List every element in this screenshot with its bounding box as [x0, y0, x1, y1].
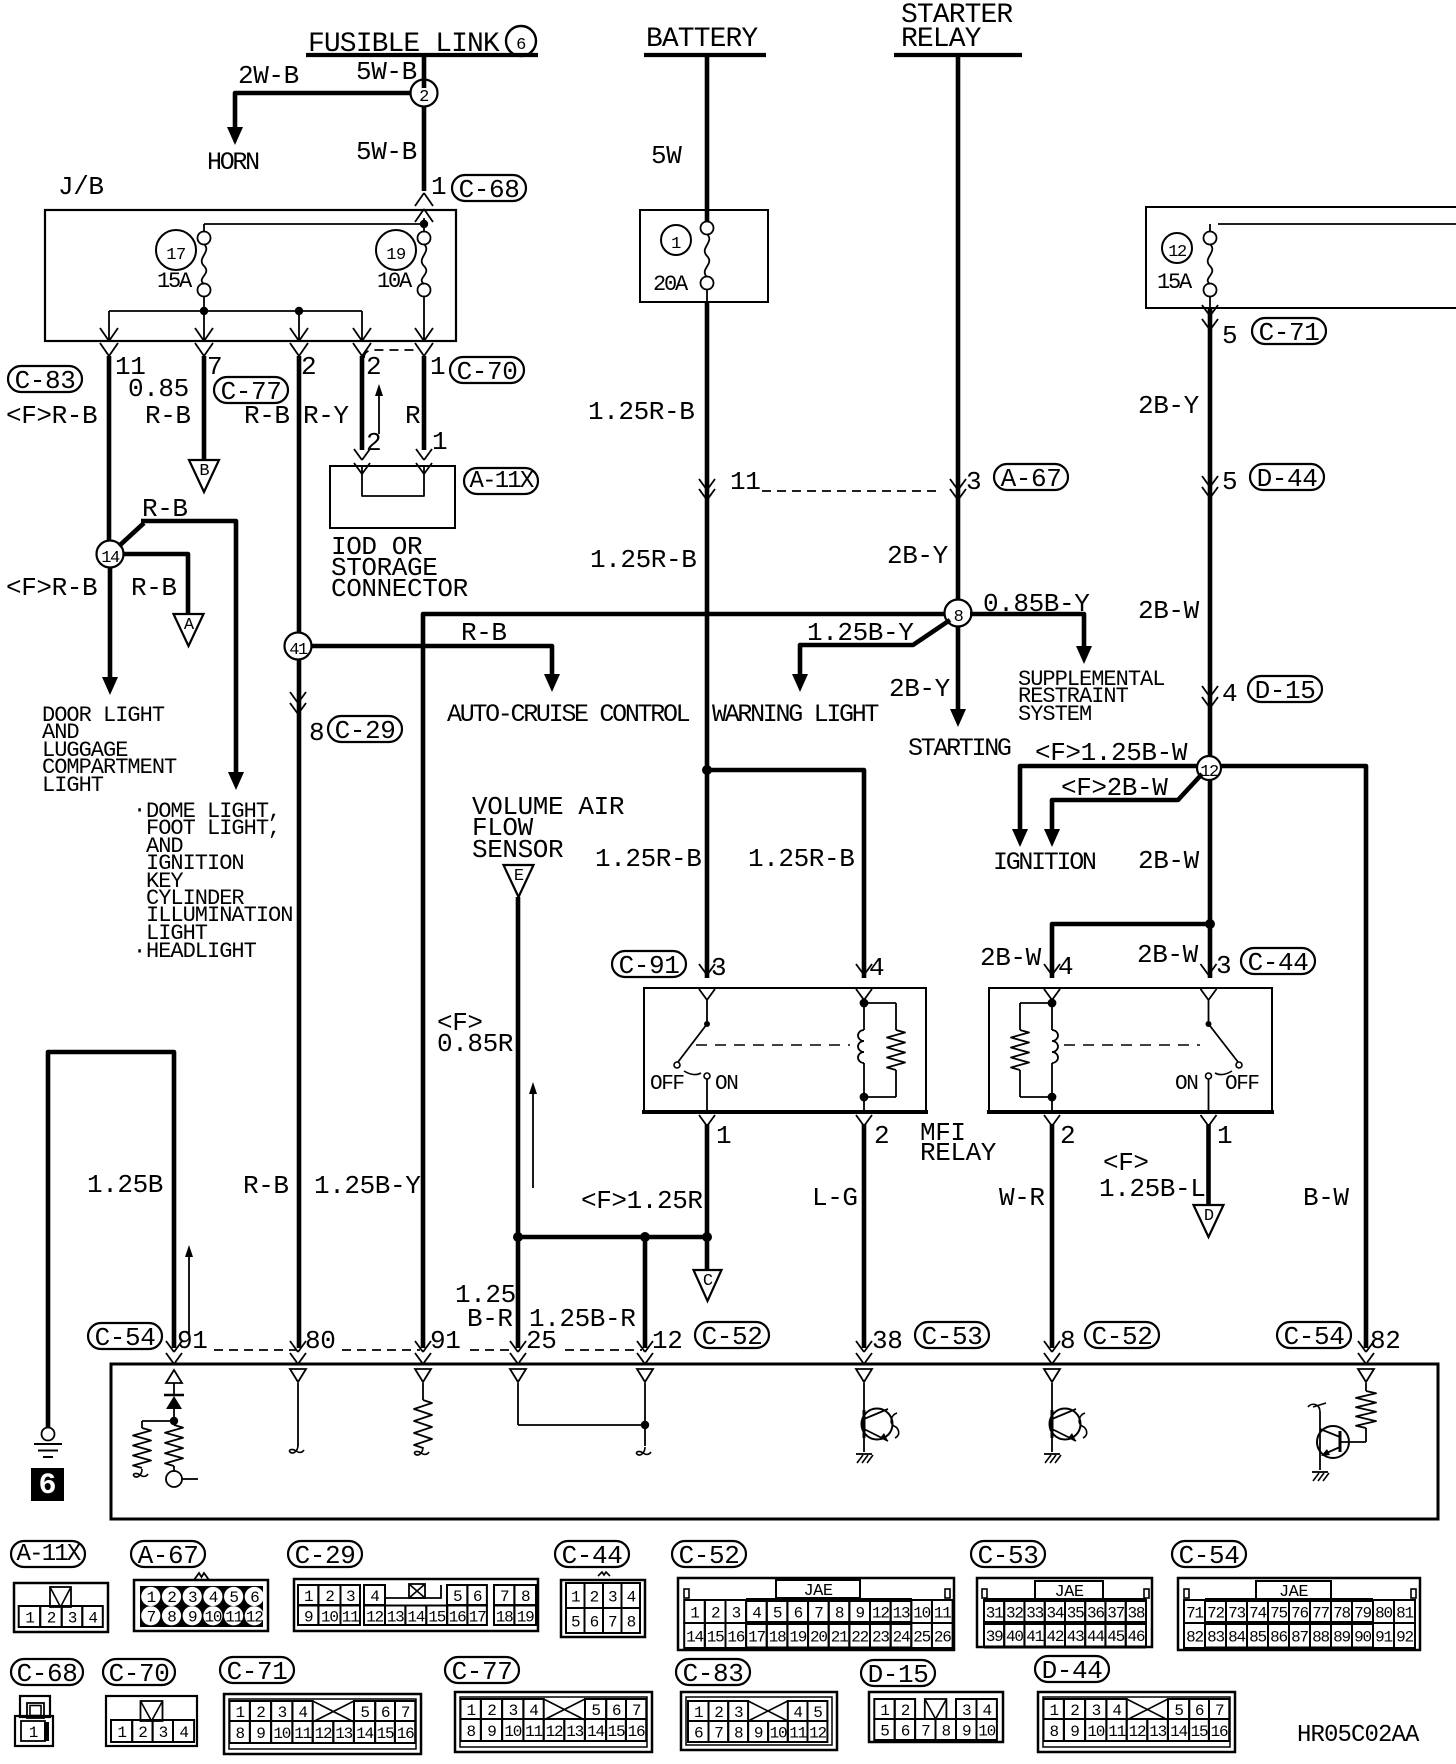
label 2B-Y right	[1138, 391, 1200, 421]
label 2B-W pin3	[1137, 940, 1199, 970]
fusible link 6 title	[306, 26, 538, 60]
connector label C-71 ref	[1252, 318, 1326, 348]
svg-text:91: 91	[430, 1326, 460, 1356]
svg-text:IGNITION: IGNITION	[993, 848, 1096, 877]
svg-text:4: 4	[1112, 1702, 1121, 1720]
direction arrow pin x423 down	[415, 1369, 431, 1382]
svg-text:11: 11	[525, 1723, 542, 1741]
label HORN	[207, 148, 259, 177]
svg-text:1.25R-B: 1.25R-B	[590, 545, 696, 575]
svg-text:6: 6	[901, 1723, 910, 1741]
wire pin 25 ecu	[518, 1383, 649, 1429]
label F 1.25B-L	[1099, 1148, 1205, 1204]
connector C-77 pinout	[445, 1657, 652, 1752]
svg-text:8: 8	[734, 1725, 743, 1743]
svg-text:3: 3	[278, 1704, 287, 1722]
wire 2B-W below node 12	[1208, 779, 1213, 978]
label 0.85B-Y	[983, 589, 1090, 619]
arrow ignition 1	[1012, 829, 1028, 847]
pin 11 label	[115, 352, 145, 382]
up arrow C-54 91	[185, 1245, 193, 1335]
svg-text:1: 1	[690, 1605, 699, 1623]
svg-text:9: 9	[754, 1725, 763, 1743]
wire R-B down to node 41	[297, 356, 302, 633]
svg-text:82: 82	[1186, 1629, 1203, 1647]
pin 7 label	[207, 352, 222, 382]
svg-text:14: 14	[101, 549, 120, 568]
label OFF relay1	[650, 1073, 684, 1096]
svg-text:4: 4	[627, 1589, 636, 1607]
svg-text:45: 45	[1107, 1628, 1124, 1646]
svg-text:2: 2	[419, 88, 429, 107]
svg-text:41: 41	[289, 641, 308, 660]
svg-text:6: 6	[590, 1614, 599, 1632]
label 1.25R-B pin4	[748, 844, 854, 874]
wire R-B below node 41	[297, 659, 302, 1348]
node 2	[411, 80, 438, 108]
svg-text:7: 7	[147, 1608, 156, 1626]
svg-text:C-70: C-70	[109, 1659, 170, 1689]
pin 91 label mid	[430, 1326, 460, 1356]
svg-text:85: 85	[1249, 1629, 1266, 1647]
label OFF relay2	[1225, 1073, 1259, 1096]
svg-text:13: 13	[335, 1725, 352, 1743]
svg-text:A-67: A-67	[1001, 464, 1062, 494]
svg-text:14: 14	[407, 1608, 424, 1626]
wire 2B-Y right	[1208, 308, 1213, 757]
triangle B	[189, 460, 219, 492]
svg-text:C-68: C-68	[17, 1659, 78, 1689]
resistor R2 ecu	[165, 1425, 198, 1487]
svg-text:<F>1.25R: <F>1.25R	[581, 1186, 703, 1216]
svg-text:C-53: C-53	[922, 1322, 983, 1352]
svg-text:7: 7	[401, 1704, 410, 1722]
svg-text:8: 8	[167, 1608, 176, 1626]
svg-text:20: 20	[810, 1629, 827, 1647]
connector C-44 pinout	[555, 1541, 645, 1637]
fuse 17 15A	[156, 224, 211, 297]
svg-text:3: 3	[346, 1588, 355, 1606]
pin 38 label	[872, 1326, 902, 1356]
svg-text:8: 8	[521, 1588, 530, 1606]
svg-text:·: ·	[133, 939, 145, 964]
dashed connector bracket A-11X	[364, 350, 419, 358]
relay 1 coil	[858, 999, 868, 1112]
label 2B-Y upper	[887, 541, 949, 571]
pin 1 label C-70	[430, 352, 445, 382]
IOD or storage connector A-11X box	[330, 466, 455, 528]
wire F 1.25B-L to triangle D	[1206, 1124, 1211, 1205]
chevrons relay2 pins top	[1044, 964, 1217, 1000]
svg-text:16: 16	[727, 1629, 744, 1647]
svg-text:1: 1	[147, 1589, 156, 1607]
resistor pin 82	[1356, 1383, 1376, 1442]
pin 2 lower label	[366, 428, 381, 458]
label 5W-B lower	[356, 137, 417, 167]
wire label F R-B	[6, 401, 97, 431]
direction arrow pin x645 down	[637, 1369, 653, 1382]
svg-text:2: 2	[1060, 1121, 1075, 1151]
transistor Q3 pin 82	[1308, 1403, 1366, 1481]
svg-text:5: 5	[571, 1614, 580, 1632]
label F 1.25B-W	[1035, 738, 1188, 768]
svg-text:<F>2B-W: <F>2B-W	[1061, 773, 1168, 803]
svg-text:C-44: C-44	[562, 1541, 623, 1571]
svg-text:5W-B: 5W-B	[356, 137, 417, 167]
connector C-70 pinout	[103, 1659, 197, 1746]
svg-text:R: R	[405, 401, 420, 431]
svg-text:2B-W: 2B-W	[980, 943, 1042, 973]
svg-text:18: 18	[496, 1608, 513, 1626]
label 2B-Y lower	[889, 674, 951, 704]
svg-text:12: 12	[872, 1605, 889, 1623]
svg-text:17: 17	[748, 1629, 765, 1647]
svg-text:25: 25	[526, 1326, 556, 1356]
svg-text:R-B: R-B	[243, 1171, 289, 1201]
svg-text:1.25B-L: 1.25B-L	[1099, 1174, 1205, 1204]
svg-text:HEADLIGHT: HEADLIGHT	[146, 939, 257, 964]
svg-text:ON: ON	[1175, 1073, 1197, 1096]
chevrons into A-11X	[354, 449, 432, 474]
svg-text:OFF: OFF	[650, 1073, 684, 1096]
svg-text:80: 80	[305, 1326, 335, 1356]
chevron starter wire 3	[950, 479, 966, 500]
pin 3 label relay1	[711, 953, 726, 983]
svg-text:HORN: HORN	[207, 148, 259, 177]
svg-text:5W: 5W	[651, 141, 682, 171]
svg-text:7: 7	[608, 1614, 617, 1632]
svg-text:A-11X: A-11X	[16, 1541, 80, 1568]
wire 1.25B ground loop	[48, 1052, 174, 1427]
label 1.25R-B upper	[588, 397, 694, 427]
connector D-15 pinout	[861, 1660, 1003, 1742]
svg-text:1: 1	[466, 1702, 475, 1720]
svg-text:14: 14	[587, 1723, 604, 1741]
svg-text:8: 8	[835, 1605, 844, 1623]
wire B-W branch right	[1221, 766, 1366, 1348]
svg-text:1: 1	[432, 427, 447, 457]
svg-text:24: 24	[893, 1629, 910, 1647]
pin 25 label	[526, 1326, 556, 1356]
label L-G	[812, 1183, 858, 1213]
label WARNING LIGHT	[712, 700, 879, 729]
svg-text:R-B: R-B	[142, 494, 188, 524]
svg-text:72: 72	[1207, 1605, 1224, 1623]
svg-text:1: 1	[1217, 1121, 1232, 1151]
svg-text:4: 4	[869, 953, 884, 983]
connector label A-11X	[464, 468, 538, 495]
svg-text:26: 26	[934, 1629, 951, 1647]
wire label R-B C-77	[244, 401, 290, 431]
svg-text:18: 18	[769, 1629, 786, 1647]
svg-text:<F>R-B: <F>R-B	[6, 573, 97, 603]
svg-text:C-53: C-53	[978, 1541, 1039, 1571]
svg-text:32: 32	[1006, 1605, 1023, 1623]
triangle C	[694, 1270, 722, 1301]
svg-text:15: 15	[428, 1608, 445, 1626]
svg-text:2W-B: 2W-B	[238, 61, 299, 91]
svg-text:1: 1	[1049, 1702, 1058, 1720]
MFI relay 1 box	[642, 988, 928, 1112]
transistor Q1 pin 38	[856, 1383, 899, 1463]
up arrow A-11X pin2	[375, 384, 383, 434]
svg-text:7: 7	[500, 1588, 509, 1606]
wire junction bus 1.25	[513, 1232, 712, 1242]
svg-text:25: 25	[913, 1629, 930, 1647]
ground symbol	[34, 1428, 62, 1458]
chevrons relay2 pins bottom	[1044, 1115, 1217, 1126]
direction arrow pin x1366 down	[1358, 1369, 1374, 1382]
svg-text:15: 15	[608, 1723, 625, 1741]
svg-text:21: 21	[831, 1629, 848, 1647]
pin 1 label relay1	[716, 1121, 731, 1151]
svg-text:A-11X: A-11X	[469, 468, 533, 495]
svg-text:13: 13	[893, 1605, 910, 1623]
svg-text:3: 3	[608, 1589, 617, 1607]
label ON relay1	[715, 1073, 737, 1096]
svg-text:C-68: C-68	[459, 175, 520, 205]
svg-text:2: 2	[256, 1704, 265, 1722]
wire 1.25B-Y to warning light	[800, 620, 950, 676]
wire pin 12 ecu	[636, 1383, 651, 1455]
label R-B above	[142, 494, 188, 524]
svg-text:8: 8	[1060, 1326, 1075, 1356]
svg-text:2: 2	[487, 1702, 496, 1720]
svg-text:HR05C02AA: HR05C02AA	[1297, 1722, 1420, 1749]
pin 8 label ecu	[1060, 1326, 1075, 1356]
svg-text:91: 91	[1375, 1629, 1392, 1647]
svg-text:5: 5	[453, 1588, 462, 1606]
svg-text:12: 12	[546, 1723, 563, 1741]
connector label D-44 ref	[1250, 464, 1324, 494]
wire R-B to auto-cruise	[311, 646, 552, 676]
svg-text:4: 4	[1058, 952, 1073, 982]
svg-text:79: 79	[1354, 1605, 1371, 1623]
svg-text:5: 5	[1174, 1702, 1183, 1720]
wire F 0.85R from sensor	[516, 897, 521, 1348]
svg-text:89: 89	[1333, 1629, 1350, 1647]
wire 2B-Y starter	[956, 57, 961, 600]
wire L-G	[862, 1124, 867, 1348]
svg-text:<F>R-B: <F>R-B	[6, 401, 97, 431]
arrow to door light	[102, 677, 118, 695]
pin 82 label	[1370, 1326, 1400, 1356]
svg-text:80: 80	[1375, 1605, 1392, 1623]
svg-text:BATTERY: BATTERY	[646, 24, 758, 55]
wire 5W-B from fusible link	[422, 57, 427, 191]
wire to triangle C	[705, 1237, 710, 1271]
svg-text:A-67: A-67	[138, 1541, 199, 1571]
dashed pin row	[214, 1349, 642, 1351]
label 1.25R-B sensor side	[0, 0, 1, 1]
pin 11 label battery	[730, 467, 760, 497]
svg-text:84: 84	[1228, 1629, 1245, 1647]
svg-text:3: 3	[68, 1610, 77, 1628]
svg-text:41: 41	[1026, 1628, 1043, 1646]
relay 1 switch	[674, 1000, 710, 1112]
svg-text:8: 8	[235, 1725, 244, 1743]
svg-text:1: 1	[880, 1702, 889, 1720]
pin 8 label	[309, 718, 324, 748]
wire 5W from battery	[705, 57, 710, 210]
wire F 1.25R from relay1 pin1	[705, 1124, 710, 1237]
svg-text:D-15: D-15	[868, 1660, 929, 1690]
svg-text:RELAY: RELAY	[901, 24, 982, 55]
svg-text:71: 71	[1186, 1605, 1203, 1623]
svg-text:1: 1	[25, 1610, 34, 1628]
svg-text:C-54: C-54	[1179, 1541, 1240, 1571]
svg-text:4: 4	[982, 1702, 991, 1720]
arrow ignition 2	[1044, 829, 1060, 847]
svg-text:10: 10	[978, 1723, 995, 1741]
svg-text:83: 83	[1207, 1629, 1224, 1647]
connector D-44 pinout	[1035, 1656, 1235, 1752]
J/B outlet chevrons	[100, 328, 433, 356]
direction arrow pin x1052 down	[1044, 1369, 1060, 1382]
wire R-Y to IOD connector	[360, 356, 365, 450]
svg-text:2B-Y: 2B-Y	[1138, 391, 1200, 421]
relay 1 resistor	[864, 1003, 905, 1097]
arrow starting	[950, 709, 966, 727]
label 1.25R-B mid	[590, 545, 696, 575]
svg-text:5: 5	[591, 1702, 600, 1720]
svg-text:SENSOR: SENSOR	[472, 835, 563, 865]
svg-text:38: 38	[1127, 1605, 1144, 1623]
svg-text:15A: 15A	[1157, 270, 1193, 295]
svg-text:3: 3	[509, 1702, 518, 1720]
svg-text:2B-Y: 2B-Y	[887, 541, 949, 571]
svg-text:4: 4	[179, 1724, 188, 1742]
connector C-54 pinout	[1172, 1541, 1420, 1650]
pin 4 label D-15	[1222, 679, 1237, 709]
svg-text:34: 34	[1046, 1605, 1063, 1623]
label F 0.85R	[437, 1008, 513, 1059]
connector C-53 pinout	[971, 1541, 1152, 1647]
svg-text:5: 5	[1222, 467, 1237, 497]
svg-text:10A: 10A	[377, 269, 413, 294]
connector label C-83	[8, 366, 82, 396]
svg-text:11: 11	[730, 467, 760, 497]
svg-text:19: 19	[789, 1629, 806, 1647]
svg-text:0.85B-Y: 0.85B-Y	[983, 589, 1090, 619]
relay 1 dashed link	[696, 1044, 850, 1046]
svg-text:17: 17	[469, 1608, 486, 1626]
svg-text:1: 1	[571, 1589, 580, 1607]
connector label C-52 ref1	[695, 1322, 769, 1352]
connector label C-77	[214, 377, 288, 407]
svg-text:10: 10	[204, 1608, 221, 1626]
svg-text:8: 8	[466, 1723, 475, 1741]
svg-text:4: 4	[370, 1588, 379, 1606]
svg-text:SYSTEM: SYSTEM	[1018, 702, 1091, 727]
svg-text:6: 6	[473, 1588, 482, 1606]
label IGNITION	[993, 848, 1096, 877]
svg-text:11: 11	[225, 1608, 242, 1626]
svg-text:5: 5	[229, 1589, 238, 1607]
svg-text:6: 6	[38, 1469, 56, 1503]
svg-text:20A: 20A	[653, 272, 689, 297]
chevrons relay1 pins top	[699, 964, 872, 1000]
svg-text:14: 14	[1170, 1723, 1187, 1741]
svg-text:10: 10	[504, 1723, 521, 1741]
starter relay title	[894, 0, 1022, 55]
svg-text:6: 6	[250, 1589, 259, 1607]
label R-B auto-cruise	[461, 618, 507, 648]
wire door light from 14	[108, 567, 113, 677]
svg-text:74: 74	[1249, 1605, 1266, 1623]
svg-text:10: 10	[1087, 1723, 1104, 1741]
svg-text:B-W: B-W	[1303, 1183, 1349, 1213]
transistor Q2 pin 8	[1044, 1383, 1087, 1463]
label AUTO-CRUISE CONTROL	[447, 700, 690, 729]
junction block J/B box	[45, 172, 456, 341]
connector C-68 pinout	[11, 1659, 83, 1746]
direction arrow pin x864 down	[856, 1369, 872, 1382]
svg-text:2B-W: 2B-W	[1138, 596, 1200, 626]
svg-text:76: 76	[1291, 1605, 1308, 1623]
wire 0.85 R-B down	[202, 356, 207, 460]
svg-text:3: 3	[1216, 951, 1231, 981]
svg-text:11: 11	[1108, 1723, 1125, 1741]
fuse 12 15A box	[1146, 207, 1456, 308]
wire starting below node 8	[956, 626, 961, 710]
svg-text:9: 9	[1070, 1723, 1079, 1741]
pin 2 label	[301, 352, 316, 382]
svg-text:31: 31	[986, 1605, 1003, 1623]
svg-text:7: 7	[714, 1725, 723, 1743]
connector label C-68	[452, 175, 526, 205]
svg-text:C-52: C-52	[1092, 1322, 1153, 1352]
svg-text:2: 2	[301, 352, 316, 382]
svg-text:2: 2	[47, 1610, 56, 1628]
pin 1 lower label	[432, 427, 447, 457]
svg-text:12: 12	[652, 1326, 682, 1356]
svg-text:2: 2	[138, 1724, 147, 1742]
svg-text:D-15: D-15	[1255, 676, 1316, 706]
svg-text:AUTO-CRUISE CONTROL: AUTO-CRUISE CONTROL	[447, 700, 690, 729]
relay 2 switch	[1206, 1000, 1243, 1112]
node 41	[285, 633, 312, 661]
label 1.25B-Y vertical	[314, 1171, 421, 1201]
label 2W-B	[238, 61, 299, 91]
svg-text:75: 75	[1270, 1605, 1287, 1623]
node 12	[1197, 756, 1221, 782]
svg-text:82: 82	[1370, 1326, 1400, 1356]
svg-text:14: 14	[356, 1725, 373, 1743]
svg-text:<F>1.25B-W: <F>1.25B-W	[1035, 738, 1188, 768]
svg-text:B: B	[199, 462, 209, 481]
svg-text:13: 13	[566, 1723, 583, 1741]
wire inside J/B top	[204, 218, 428, 232]
label 2B-W mid	[1138, 846, 1200, 876]
wire 1.25R-B below fuse	[705, 302, 710, 770]
svg-text:92: 92	[1396, 1629, 1413, 1647]
connector label C-91	[612, 951, 686, 981]
svg-text:3: 3	[711, 953, 726, 983]
wire label R	[405, 401, 420, 431]
label 5W-B upper	[356, 57, 417, 87]
svg-text:12: 12	[366, 1608, 383, 1626]
connector label A-67	[994, 464, 1068, 494]
MFI relay 2 box	[987, 988, 1274, 1112]
connector C-71 pinout	[220, 1657, 421, 1754]
connector C-29 pinout	[288, 1541, 538, 1631]
svg-text:B-R: B-R	[467, 1304, 513, 1334]
drawing number HR05C02AA	[1297, 1722, 1420, 1749]
svg-text:2: 2	[590, 1589, 599, 1607]
label 2B-W upper	[1138, 596, 1200, 626]
svg-text:R-B: R-B	[131, 573, 177, 603]
